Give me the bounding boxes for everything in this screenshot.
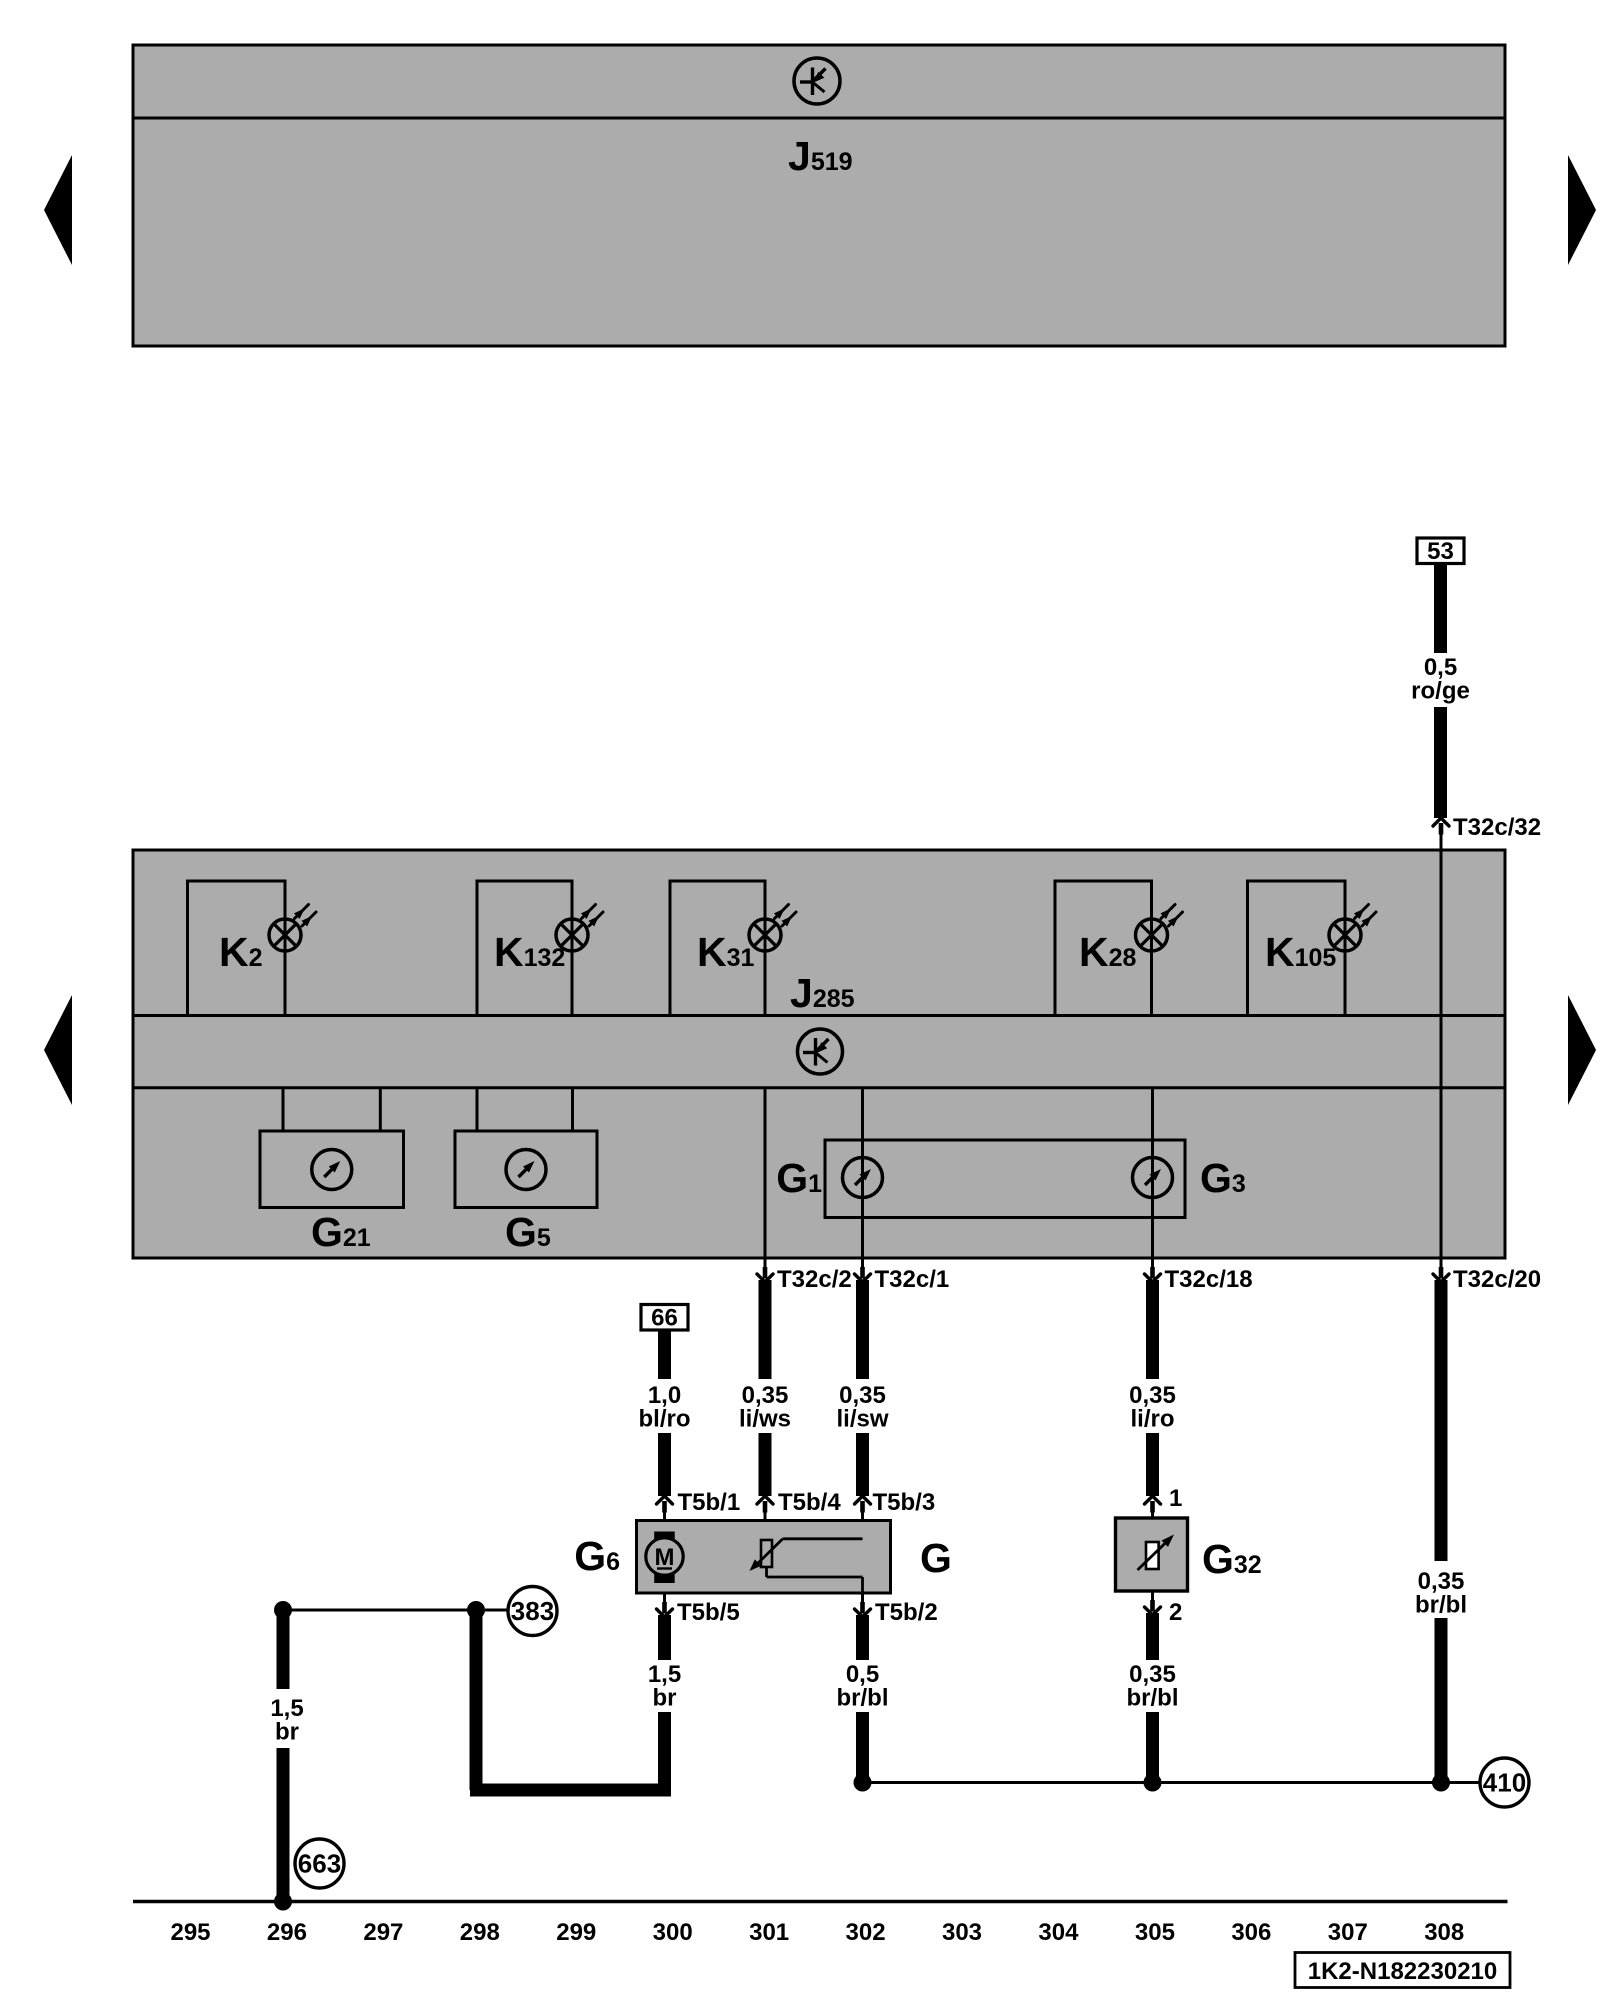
svg-text:T32c/20: T32c/20 (1453, 1266, 1541, 1293)
svg-text:299: 299 (556, 1919, 596, 1946)
svg-text:53: 53 (1427, 538, 1454, 565)
svg-text:T5b/3: T5b/3 (873, 1489, 936, 1516)
svg-text:2: 2 (1169, 1599, 1182, 1626)
svg-text:307: 307 (1328, 1919, 1368, 1946)
svg-text:T32c/18: T32c/18 (1165, 1266, 1253, 1293)
svg-text:li/ro: li/ro (1130, 1406, 1174, 1433)
svg-text:305: 305 (1135, 1919, 1175, 1946)
svg-text:br: br (653, 1685, 677, 1712)
svg-text:383: 383 (511, 1596, 554, 1626)
svg-text:304: 304 (1038, 1919, 1079, 1946)
svg-text:T5b/2: T5b/2 (875, 1599, 938, 1626)
svg-text:306: 306 (1231, 1919, 1271, 1946)
svg-text:T5b/1: T5b/1 (678, 1489, 741, 1516)
svg-text:T5b/4: T5b/4 (778, 1489, 841, 1516)
svg-text:308: 308 (1424, 1919, 1464, 1946)
svg-text:663: 663 (298, 1849, 341, 1879)
svg-text:li/sw: li/sw (836, 1406, 888, 1433)
svg-text:410: 410 (1483, 1768, 1526, 1798)
svg-text:303: 303 (942, 1919, 982, 1946)
svg-text:300: 300 (653, 1919, 693, 1946)
svg-text:1: 1 (1169, 1485, 1182, 1512)
svg-text:296: 296 (267, 1919, 307, 1946)
svg-text:br/bl: br/bl (1415, 1592, 1467, 1619)
svg-text:295: 295 (170, 1919, 210, 1946)
svg-text:302: 302 (846, 1919, 886, 1946)
svg-text:ro/ge: ro/ge (1411, 678, 1470, 705)
svg-text:li/ws: li/ws (739, 1406, 791, 1433)
svg-text:T5b/5: T5b/5 (677, 1599, 740, 1626)
svg-text:298: 298 (460, 1919, 500, 1946)
svg-text:301: 301 (749, 1919, 789, 1946)
svg-text:bl/ro: bl/ro (639, 1406, 691, 1433)
svg-text:M: M (655, 1544, 675, 1571)
svg-text:T32c/32: T32c/32 (1453, 814, 1541, 841)
svg-text:66: 66 (651, 1305, 678, 1332)
svg-text:1K2-N182230210: 1K2-N182230210 (1308, 1958, 1497, 1985)
svg-text:T32c/2: T32c/2 (777, 1266, 852, 1293)
svg-text:br: br (275, 1719, 299, 1746)
svg-text:297: 297 (363, 1919, 403, 1946)
svg-text:br/bl: br/bl (837, 1685, 889, 1712)
svg-text:G: G (920, 1535, 952, 1581)
svg-text:br/bl: br/bl (1127, 1685, 1179, 1712)
svg-text:T32c/1: T32c/1 (875, 1266, 950, 1293)
